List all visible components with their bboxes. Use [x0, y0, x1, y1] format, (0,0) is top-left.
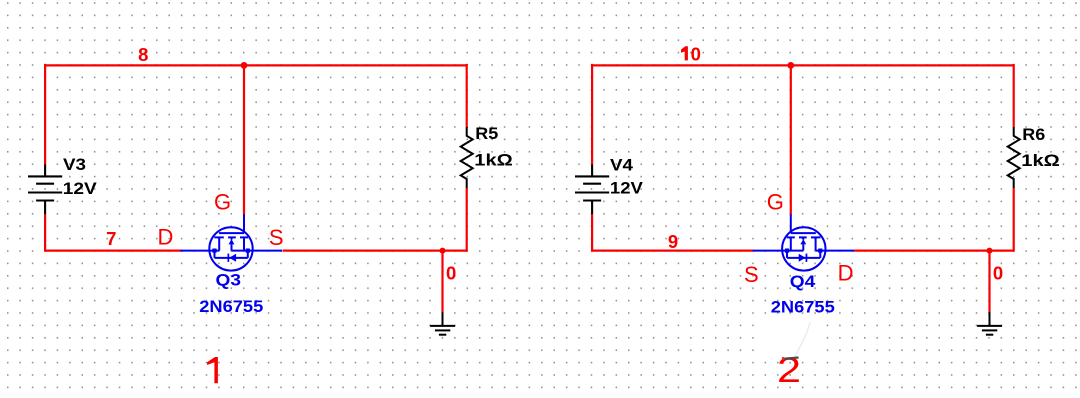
wire: V4 positive lead vertical — [591, 64, 593, 165]
svg-text:0: 0 — [446, 263, 456, 284]
node label 10 — [681, 46, 688, 60]
wire: net 8 gate drop to Q3 — [243, 65, 245, 214]
svg-text:S: S — [744, 262, 759, 287]
svg-text:7: 7 — [106, 228, 116, 249]
junction on net 0 at ground tap — [440, 248, 446, 254]
wire: net 0 bottom right horizontal (Q3 source to R5 bottom) — [283, 250, 467, 252]
svg-text:S: S — [269, 225, 284, 250]
ground symbol circuit 1 — [430, 312, 455, 335]
junction on net 0 at ground tap circuit 2 — [987, 248, 993, 254]
circuit number 1 — [207, 357, 218, 383]
svg-text:G: G — [214, 190, 231, 215]
svg-text:Q4: Q4 — [790, 272, 816, 291]
wire: net 0 bottom right horizontal (Q4 drain to R6 bottom) — [854, 250, 1014, 252]
svg-text:1kΩ: 1kΩ — [474, 150, 513, 169]
svg-text:0: 0 — [691, 44, 701, 65]
svg-text:2: 2 — [777, 350, 801, 390]
wire: net 10 top horizontal (V4+ to R6 top) — [592, 64, 1014, 66]
wire: net 10 gate drop to Q4 — [790, 65, 792, 214]
eraser smudge over grid above circuit number 2 — [756, 318, 817, 357]
junction on net 10 at gate drop — [787, 62, 794, 69]
battery V3 — [28, 165, 62, 215]
junction on net 8 at gate drop — [241, 62, 248, 69]
svg-text:D: D — [157, 224, 173, 249]
resistor R5 — [461, 127, 473, 188]
wire: R6 bottom lead vertical — [1013, 188, 1015, 252]
wire: R5 top lead vertical — [466, 64, 468, 127]
svg-text:12V: 12V — [63, 179, 98, 198]
wire: R6 top lead vertical — [1013, 64, 1015, 127]
ground symbol circuit 2 — [977, 312, 1002, 335]
wire: V3 positive lead vertical — [44, 64, 46, 165]
svg-text:V3: V3 — [63, 155, 86, 174]
svg-text:R6: R6 — [1022, 125, 1045, 144]
svg-text:G: G — [767, 190, 784, 215]
transistor Q4 (2N6755 NMOS, mirrored) — [753, 214, 855, 270]
svg-text:Q3: Q3 — [216, 271, 242, 290]
svg-text:D: D — [838, 260, 854, 285]
resistor R6 — [1008, 127, 1020, 188]
svg-text:9: 9 — [668, 231, 678, 252]
svg-text:0: 0 — [993, 263, 1003, 284]
wire: net 7 bottom left horizontal (V3- to Q3 drain) — [45, 250, 181, 252]
svg-text:12V: 12V — [610, 179, 644, 198]
svg-text:1kΩ: 1kΩ — [1021, 151, 1060, 170]
wire: V4 negative lead vertical — [591, 214, 593, 251]
wire: V3 negative lead vertical — [44, 214, 46, 251]
stray pen mark on top of circuit number 2 — [784, 358, 799, 359]
wire: net 8 top horizontal (V3+ to R5 top) — [45, 64, 467, 66]
svg-text:2N6755: 2N6755 — [771, 298, 835, 317]
svg-text:R5: R5 — [475, 124, 498, 143]
svg-text:8: 8 — [138, 44, 148, 65]
red fleck at left end of stray mark — [782, 357, 785, 360]
wire: net 9 bottom left horizontal (V4- to Q4 source) — [592, 250, 753, 252]
faint pencil wisp above circuit number 2 — [795, 322, 810, 356]
battery V4 — [575, 165, 609, 215]
svg-text:V4: V4 — [610, 156, 634, 175]
wire: R5 bottom lead vertical — [466, 188, 468, 252]
wire: ground drop circuit 2 — [988, 251, 990, 312]
wire: ground drop circuit 1 — [441, 251, 443, 312]
svg-text:2N6755: 2N6755 — [199, 297, 263, 316]
transistor Q3 (2N6755 NMOS) — [181, 214, 283, 270]
